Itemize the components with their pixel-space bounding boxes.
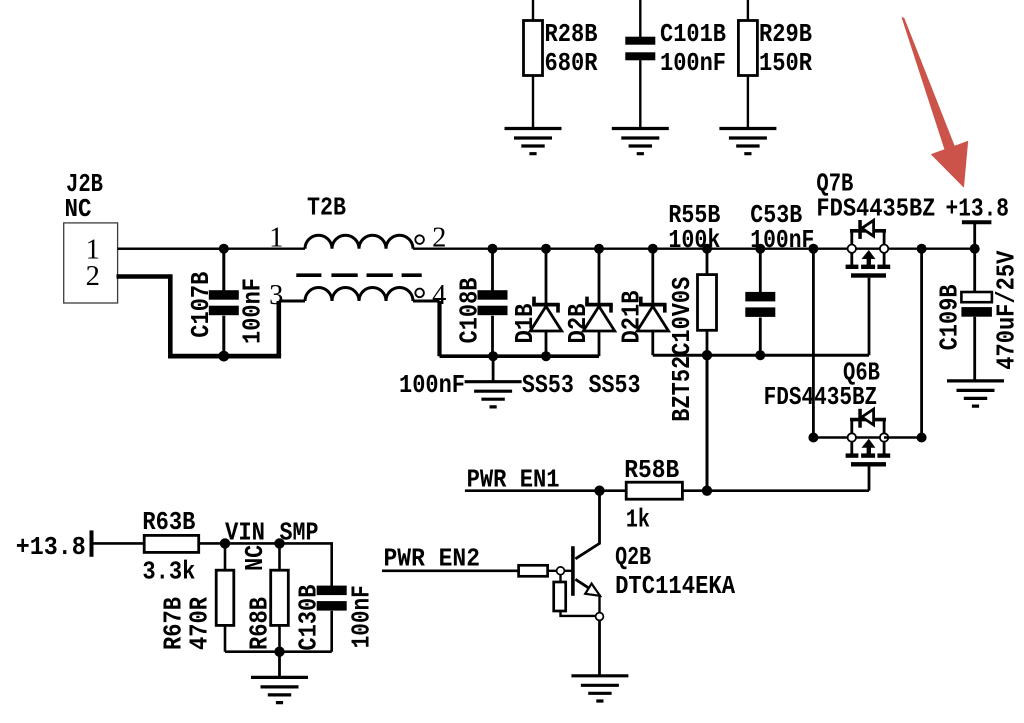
- wire VIN to SMP: [225, 542, 280, 545]
- svg-text:D1B: D1B: [510, 303, 540, 343]
- svg-text:SS53: SS53: [522, 370, 574, 400]
- svg-text:680R: 680R: [545, 48, 598, 78]
- wire D2B anode lead: [598, 331, 601, 356]
- node junction Q6B branch top: [808, 244, 818, 254]
- transistor Q2B base circle: [557, 567, 565, 575]
- transformer T2B label: [307, 193, 346, 223]
- wire J2B pin2: [117, 277, 171, 357]
- transformer polarity circle pin4: [415, 289, 424, 298]
- capacitor C109B: [935, 250, 1022, 369]
- wire bottom rail left: [168, 354, 281, 359]
- wire R29B to ground: [747, 76, 749, 130]
- label C108B value: [399, 370, 465, 400]
- svg-text:C109B: C109B: [935, 284, 965, 350]
- wire C107B top lead: [222, 249, 225, 291]
- wire D2B cathode lead: [598, 249, 601, 305]
- wire C107B bottom lead: [222, 316, 225, 356]
- node junction C108B top: [488, 244, 498, 254]
- wire R58B left lead: [600, 489, 627, 492]
- wire R28B to ground: [532, 76, 534, 130]
- transistor Q7B: [816, 169, 935, 278]
- ground C101B: [612, 129, 669, 154]
- svg-text:100nF: 100nF: [347, 585, 377, 648]
- wire C101B to ground: [639, 60, 641, 129]
- wire SMP to C130B: [280, 543, 332, 586]
- resistor R29B: [738, 19, 812, 78]
- svg-text:C101B: C101B: [660, 19, 726, 49]
- wire PWR_EN2: [382, 569, 519, 572]
- svg-text:SS53: SS53: [589, 370, 641, 400]
- net label VIN: [225, 518, 265, 548]
- label D2B value: [589, 370, 641, 400]
- wire C101B top: [639, 0, 641, 38]
- node junction C107B bottom: [218, 351, 229, 362]
- label D21B value: [667, 277, 697, 422]
- diode D2B: [563, 297, 615, 344]
- wire Q2B emitter to ground: [598, 620, 601, 676]
- svg-text:R29B: R29B: [759, 19, 812, 49]
- svg-text:PWR EN2: PWR EN2: [384, 544, 481, 574]
- transistor Q6B: [764, 358, 891, 467]
- power flag +13.8 input: [16, 530, 144, 562]
- svg-text:NC: NC: [65, 194, 92, 224]
- node junction C53B bottom: [755, 350, 765, 360]
- wire Q2B base circle to bar: [565, 570, 572, 572]
- resistor R63B: [142, 507, 198, 587]
- node junction D1B bottom: [541, 351, 551, 361]
- capacitor C108B: [454, 277, 507, 343]
- transformer polarity circle pin2: [415, 235, 424, 244]
- wire bottom-left rail: [225, 650, 332, 653]
- diode D21B: [617, 290, 669, 343]
- capacitor C130B: [293, 584, 376, 650]
- wire R28B top: [532, 0, 534, 22]
- wire Q7B gate lead: [868, 278, 871, 356]
- transformer T2B primary coil: [305, 235, 413, 249]
- svg-text:100k: 100k: [668, 225, 720, 255]
- svg-text:R28B: R28B: [545, 19, 598, 49]
- node junction C108B bottom: [488, 351, 498, 361]
- annotation red arrow: [902, 17, 969, 188]
- node junction VIN: [220, 538, 230, 548]
- node junction SMP: [274, 538, 284, 548]
- transistor Q2B emitter: [575, 579, 600, 612]
- wire C130B bottom lead: [330, 611, 333, 652]
- node junction Q6B drain: [917, 433, 927, 443]
- svg-text:100nF: 100nF: [399, 370, 465, 400]
- wire C53B bottom lead: [759, 318, 762, 356]
- wire Q6B drain: [884, 436, 922, 438]
- resistor R28B: [524, 19, 598, 78]
- net label SMP: [280, 518, 319, 548]
- ground C109B: [947, 381, 1004, 406]
- power flag +13.8 output: [946, 194, 1010, 249]
- capacitor C53B: [745, 200, 814, 317]
- wire Q2B base to R2: [559, 575, 561, 582]
- wire gate rail: [653, 354, 869, 357]
- resistor Q2B input: [519, 565, 548, 576]
- pin 3 label: [269, 280, 283, 311]
- svg-text:C108B: C108B: [454, 277, 484, 343]
- svg-text:DTC114EKA: DTC114EKA: [615, 571, 735, 601]
- ground R68B: [251, 677, 308, 702]
- wire Q6B source branch: [812, 249, 815, 438]
- wire Q6B gate lead: [868, 467, 871, 491]
- wire D21B anode lead: [651, 331, 654, 355]
- node junction D2B top: [594, 244, 604, 254]
- resistor R67B: [158, 543, 234, 651]
- label Q2B: [615, 542, 735, 601]
- label D1B value: [522, 370, 574, 400]
- wire D21B cathode lead: [651, 249, 654, 305]
- node junction R58B out: [702, 486, 712, 496]
- svg-text:100nF: 100nF: [660, 48, 726, 78]
- svg-text:T2B: T2B: [307, 193, 346, 223]
- resistor R55B: [668, 200, 720, 331]
- node junction C53B top: [755, 244, 765, 254]
- svg-text:1k: 1k: [626, 504, 650, 534]
- transformer T2B secondary coil: [279, 288, 440, 302]
- node junction D21B top: [648, 244, 658, 254]
- wire C53B top lead: [759, 249, 762, 293]
- wire R63B to VIN: [199, 542, 225, 545]
- svg-text:R63B: R63B: [142, 507, 195, 537]
- wire T2B pin4 lead down: [437, 301, 441, 356]
- transistor Q2B base bar: [571, 546, 575, 596]
- node junction R55B bottom: [702, 350, 712, 360]
- transistor Q2B emitter circle: [596, 613, 604, 621]
- wire C108B top lead: [491, 249, 494, 291]
- node junction C107B top: [219, 244, 229, 254]
- svg-text:+13.8: +13.8: [946, 194, 1010, 224]
- svg-text:FDS4435BZ: FDS4435BZ: [816, 194, 935, 224]
- svg-text:2: 2: [86, 261, 100, 292]
- wire C109B bottom lead: [973, 317, 976, 382]
- wire R58B right lead: [682, 489, 707, 492]
- wire R55B top lead: [706, 249, 709, 276]
- svg-text:D21B: D21B: [617, 290, 647, 343]
- svg-text:NC: NC: [240, 545, 270, 571]
- svg-text:D2B: D2B: [563, 303, 593, 343]
- svg-text:BZT52C10V0S: BZT52C10V0S: [667, 277, 697, 422]
- node junction ground: [274, 647, 284, 657]
- svg-text:Q2B: Q2B: [615, 542, 651, 572]
- wire PWR_EN1: [465, 489, 600, 492]
- wire main rail: [118, 247, 852, 249]
- pin 1 label: [269, 223, 283, 254]
- pin 4 label: [432, 280, 446, 311]
- resistor R58B: [624, 455, 682, 534]
- pin 2 label: [432, 223, 446, 254]
- wire main rail right: [884, 247, 975, 249]
- transformer core dashed line: [296, 273, 421, 277]
- net label NC: [240, 545, 270, 571]
- ground C108B: [465, 382, 522, 407]
- diode D1B: [510, 297, 562, 344]
- net label PWR EN1: [467, 465, 560, 495]
- wire bottom rail right: [440, 354, 600, 358]
- svg-text:C130B: C130B: [293, 584, 323, 650]
- svg-text:100nF: 100nF: [237, 278, 267, 344]
- wire ground stub: [278, 652, 281, 679]
- wire T2B pin3 lead down: [276, 301, 281, 356]
- svg-text:C107B: C107B: [186, 271, 216, 337]
- wire R55B node down: [706, 355, 709, 491]
- capacitor C101B: [625, 19, 726, 78]
- resistor Q2B base-emitter: [554, 582, 566, 611]
- svg-text:150R: 150R: [759, 48, 812, 78]
- svg-text:3: 3: [269, 280, 283, 311]
- wire D1B anode lead: [545, 331, 548, 356]
- svg-text:+13.8: +13.8: [16, 532, 86, 562]
- svg-text:FDS4435BZ: FDS4435BZ: [764, 382, 878, 412]
- wire D1B cathode lead: [545, 249, 548, 305]
- wire C108B bottom lead: [491, 316, 494, 357]
- wire Q2B base lead: [548, 570, 557, 572]
- ground R29B: [719, 129, 776, 154]
- resistor R68B: [244, 543, 288, 651]
- svg-text:R68B: R68B: [244, 597, 274, 650]
- svg-text:3.3k: 3.3k: [142, 557, 195, 587]
- node junction output: [970, 244, 980, 254]
- wire R55B bottom lead: [706, 330, 709, 355]
- wire R29B top: [747, 0, 749, 22]
- wire R2 to emitter: [561, 611, 596, 616]
- wire C109B top lead: [973, 249, 976, 293]
- svg-text:100nF: 100nF: [750, 225, 814, 255]
- capacitor C107B: [186, 271, 267, 344]
- svg-text:470uF/25V: 470uF/25V: [992, 250, 1022, 369]
- connector J2B: [64, 169, 118, 303]
- svg-text:470R: 470R: [185, 597, 215, 650]
- node junction drain rail: [917, 244, 927, 254]
- ground R28B: [505, 129, 562, 154]
- node junction R55B top: [702, 244, 712, 254]
- wire Q2B collector lead: [575, 491, 599, 559]
- svg-text:R58B: R58B: [624, 455, 679, 485]
- node junction Q2B collector: [594, 486, 604, 496]
- wire R58B out to Q6B gate: [707, 489, 869, 492]
- node junction Q6B source: [808, 433, 818, 443]
- wire C108B ground stub: [492, 356, 495, 383]
- net label PWR EN2: [384, 544, 481, 574]
- wire Q6B source: [813, 436, 851, 438]
- wire Q6B drain up: [920, 249, 923, 438]
- node junction D1B top: [541, 244, 551, 254]
- wire J2B pin1 to junction: [118, 247, 224, 249]
- ground Q2B: [571, 676, 628, 701]
